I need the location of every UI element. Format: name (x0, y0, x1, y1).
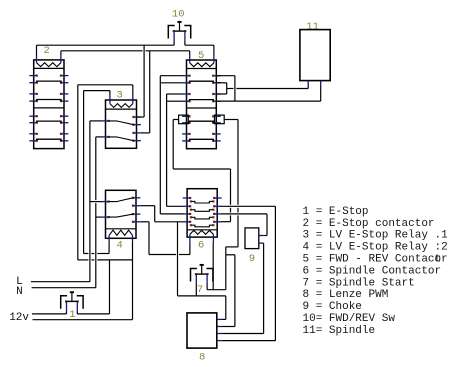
contactor K2 (E-Stop contactor) contact 2 terminal A right pin (60, 93, 68, 95)
wire branch down to K3 NO2 (149, 51, 151, 133)
contactor K2 (E-Stop contactor) contact 3 terminal A left pin (29, 115, 37, 117)
svg-text:1 = E-Stop: 1 = E-Stop (303, 206, 369, 218)
contactor K2 (E-Stop contactor) contact 4 bridge bar (37, 139, 61, 141)
svg-text:11= Spindle: 11= Spindle (303, 325, 376, 337)
contactor K5 (FWD-REV contactor) box (187, 60, 217, 149)
svg-text:7: 7 (197, 284, 203, 296)
wire K2.coil-right to K5.coil-left (horizontal, hops over net A drop) (61, 50, 143, 52)
wire choke pin2 down to PWM pin3 (262, 242, 264, 244)
svg-text:N: N (16, 286, 23, 298)
wire S7 right pin to net R (207, 289, 226, 291)
relay K4 contact 2 arm (109, 214, 134, 217)
pushbutton S7 (Spindle Start) left pin (195, 275, 197, 285)
relay K3 coil pins (109, 95, 111, 104)
contactor K5 (FWD-REV contactor) contact 2 terminal A left pin (182, 93, 190, 95)
relay K3 coil (110, 104, 133, 108)
contactor K2 (E-Stop contactor) contact 2 terminal B left pin (29, 100, 37, 102)
net Q vertical (x=83) (83, 91, 85, 254)
contactor K2 (E-Stop contactor) contact 4 terminal A right pin (60, 133, 68, 135)
contactor K5 (FWD-REV contactor) section divider (187, 107, 217, 109)
vertical x=266.5 to choke pin1 (266, 214, 268, 236)
contactor K2 (E-Stop contactor) contact 1 terminal B right pin (60, 82, 68, 84)
contactor K6 coil divider (187, 229, 217, 231)
wire L feeder (31, 281, 90, 283)
contactor K5 (FWD-REV contactor) contact 4 terminal A left pin (182, 133, 190, 135)
relay K3 contact 1 NO pin (133, 116, 141, 118)
wire K4 NO2 lead (140, 221, 149, 223)
contactor K2 (E-Stop contactor) contact 1 terminal A left pin (29, 75, 37, 77)
switch S10 (FWD/REV) contact bar (173, 30, 175, 32)
wire K4 common1 tap (90, 201, 102, 203)
vertical x=154.2 (154, 206, 156, 222)
contactor K6 coil (190, 230, 214, 234)
wire drop to K2 coil left pin (36, 45, 38, 55)
svg-text:1: 1 (69, 309, 75, 321)
net P vertical (x=77) (77, 85, 79, 260)
U8 pin 3 (217, 333, 222, 335)
wire K4 NO1 to x=154.2 (140, 205, 154, 207)
L9 pin 2 (259, 242, 264, 244)
contactor K2 (E-Stop contactor) coil pins (36, 55, 38, 63)
contactor K6 pole 3 left pin (183, 213, 191, 215)
contactor K2 (E-Stop contactor) contact 2 terminal A left pin (29, 93, 37, 95)
L9 pin 1 (259, 235, 264, 237)
K5 contact1 terminal A right lead (216, 75, 235, 77)
pushbutton S7 (Spindle Start) plunger (200, 264, 204, 266)
contactor K2 (E-Stop contactor) contact 1 terminal A right pin (60, 75, 68, 77)
relay K4 contact 1 NO pin (132, 205, 140, 207)
pushbutton S7 (Spindle Start) bracket (191, 269, 197, 282)
svg-text:6 = Spindle Contactor: 6 = Spindle Contactor (303, 265, 442, 277)
net S horizontal to PWM pin1 drop (178, 295, 226, 297)
pushbutton S1 (E-Stop) right pin (76, 302, 78, 312)
contactor K2 (E-Stop contactor) contact 3 terminal B right pin (60, 122, 68, 124)
svg-text:6: 6 (198, 239, 204, 251)
vertical x=148.5 (148, 222, 150, 255)
relay K3 contact 2 NC pin (133, 140, 141, 142)
wire K2.coil-right riser (60, 51, 62, 55)
relay K4 coil (109, 230, 132, 235)
wire N feeder (32, 287, 96, 289)
net R branch to PWM pin2 (226, 254, 235, 256)
U8 pin 4 (217, 340, 222, 342)
vertical x=274.9 to PWM pin4 (274, 206, 276, 340)
choke L9 box (245, 228, 259, 249)
relay K3 contact 1 arm (109, 121, 134, 125)
contactor K6 pole 2 right pin (213, 205, 221, 207)
contactor K2 (E-Stop contactor) contact 2 terminal B right pin (60, 100, 68, 102)
wire K4 coil-left drop to net Q (108, 242, 110, 254)
contactor K2 (E-Stop contactor) contact 4 terminal B right pin (60, 140, 68, 142)
wire drop to K5 coil left pin (189, 51, 191, 55)
Lenze PWM U8 box (187, 313, 217, 348)
wire PWM pin4 lead (221, 340, 275, 342)
K5 contact1/4 loop vertical (234, 76, 236, 101)
wire across y=168.5 (173, 168, 230, 170)
wire K5 right terminal box lead (224, 119, 238, 121)
wire K6 coil-right drop (212, 243, 214, 290)
net P horizontal y=259 (hops over L and N risers) (78, 259, 89, 261)
svg-text:4: 4 (117, 239, 123, 251)
relay K3 contact 1 common pin (101, 120, 109, 122)
U8 pin 2 (217, 326, 222, 328)
wire S10.right to K5.coil-right (185, 44, 214, 46)
svg-text:2: 2 (44, 45, 50, 57)
wire S7 right pin drop (206, 285, 208, 290)
pushbutton S1 (E-Stop) contact bar (65, 300, 67, 302)
contactor K5 (FWD-REV contactor) contact 4 terminal B left pin (182, 140, 190, 142)
svg-text:t: t (435, 254, 442, 266)
contactor K6 pole 4 bridge bar (190, 224, 192, 226)
svg-text:2 = E-Stop contactor: 2 = E-Stop contactor (303, 218, 435, 230)
contactor K2 (E-Stop contactor) coil (37, 63, 61, 67)
contactor K2 (E-Stop contactor) section divider (34, 107, 64, 109)
pushbutton S1 (E-Stop) plunger (70, 291, 74, 293)
relay K3 contact 2 common pin (101, 136, 109, 138)
wire K6 pole2 right to PWM pin4 (222, 205, 276, 207)
wire E-stop right riser to net P (109, 260, 111, 314)
wire drop to K5 coil right pin (213, 45, 215, 55)
svg-text:8 = Lenze PWM: 8 = Lenze PWM (303, 289, 389, 301)
svg-text:3: 3 (117, 89, 123, 101)
contactor K2 (E-Stop contactor) contact 2 bridge bar (37, 100, 61, 102)
contactor K6 pole 3 bridge bar (190, 216, 192, 218)
wire 12v second feeder (33, 319, 133, 321)
wire K3.coil-right pin drop (132, 85, 134, 95)
contactor K5 (FWD-REV contactor) contact 3 terminal A left pin (182, 115, 190, 117)
M11 pin left (307, 81, 309, 86)
svg-text:5 = FWD - REV Contacor: 5 = FWD - REV Contacor (303, 254, 448, 266)
K5 contact1 terminal A lead (160, 75, 182, 77)
contactor K2 (E-Stop contactor) contact 3 terminal A right pin (60, 115, 68, 117)
relay K4 coil divider (106, 228, 137, 230)
contactor K5 (FWD-REV contactor) contact 4 terminal A right pin (212, 133, 220, 135)
relay K4 coil pins (108, 235, 110, 242)
contactor K6 pole 4 right pin (213, 221, 221, 223)
wire PWM pin2 lead (221, 326, 235, 328)
contactor K6 pole 4 left pin (183, 221, 191, 223)
wire into K6 pole4 right (222, 221, 231, 223)
net R branch vertical to PWM pin2 (234, 255, 236, 327)
net R vertical x=237.5 (hops K6 pole2/3 wires) (237, 120, 239, 205)
wire to K6 pole2 left (167, 205, 183, 207)
contactor K2 (E-Stop contactor) contact 3 terminal B left pin (29, 122, 37, 124)
wire K3.coil-left horizontal (84, 90, 110, 92)
relay K3 contact 2 NO pin (133, 132, 141, 134)
contactor K5 (FWD-REV contactor) coil (190, 63, 214, 67)
pushbutton S1 left pin lead (66, 312, 68, 314)
net R vertical x=225.6 (225, 247, 227, 290)
svg-text:9 = Choke: 9 = Choke (303, 301, 362, 313)
wire S10.left to K2.coil-left (horizontal) (37, 44, 175, 46)
wire choke pin1 lead (263, 235, 267, 237)
contactor K6 box (187, 189, 217, 237)
K5 contact2 terminal B right lead to M11 right pin (216, 100, 320, 102)
net R jog (226, 246, 238, 248)
relay K4 contact 1 common pin (101, 201, 109, 203)
contactor K2 (E-Stop contactor) contact 4 terminal B left pin (29, 140, 37, 142)
K5 contact1 terminal B lead (160, 82, 182, 84)
contactor K5 (FWD-REV contactor) contact 4 bridge bar (190, 139, 214, 141)
contactor K6 pole 1 right pin (213, 197, 221, 199)
relay K4 box (106, 190, 137, 238)
wire tap down to K3 NO1 (143, 45, 145, 117)
wire into K3 NO1 pin (137, 116, 145, 118)
wire K6 pole3 right to choke (222, 213, 268, 215)
svg-text:7 = Spindle Start: 7 = Spindle Start (303, 277, 415, 289)
wire into K3 common1 (90, 120, 102, 122)
wire K5 left terminal box lead (173, 119, 178, 121)
wire into K3 NO2 pin (141, 132, 150, 134)
M11 pin right (320, 81, 322, 86)
contactor K5 (FWD-REV contactor) contact 2 terminal A right pin (212, 93, 220, 95)
contactor K5 (FWD-REV contactor) contact 1 bridge bar (190, 81, 214, 83)
contactor K5 (FWD-REV contactor) contact 1 terminal A left pin (182, 75, 190, 77)
U8 pin 1 (217, 318, 222, 320)
K5 contact2 terminal B lead (167, 100, 183, 102)
net Q horizontal y=253 (hops over L and N risers) (84, 253, 89, 255)
relay K4 contact 2 NO pin (132, 221, 140, 223)
K5 contact1 terminal B right lead (216, 82, 226, 84)
relay K4 contact 2 NC pin (132, 213, 140, 215)
wire down x=230 to K6 pole4 right (hops K6 pole2/3 wires) (230, 169, 232, 205)
relay K3 contact 2 arm (109, 137, 134, 141)
pushbutton S1 (E-Stop) left pin (66, 302, 68, 312)
contactor K5 left terminal box (179, 115, 189, 124)
contactor K6 pole 1 left pin (183, 197, 191, 199)
relay K4 contact 1 arm (109, 198, 134, 202)
svg-text:10= FWD/REV Sw: 10= FWD/REV Sw (303, 313, 396, 325)
contactor K5 (FWD-REV contactor) contact 3 terminal B left pin (182, 122, 190, 124)
contactor K5 (FWD-REV contactor) coil pins (189, 55, 191, 63)
contactor K5 (FWD-REV contactor) contact 1 terminal B left pin (182, 82, 190, 84)
wire PWM pin1 lead (221, 318, 226, 320)
K5 contact2 jumper vertical (166, 94, 168, 206)
switch S10 (FWD/REV) bracket (168, 26, 174, 39)
wire S7 left pin drop to net S (195, 285, 197, 296)
contactor K5 (FWD-REV contactor) contact 2 terminal B left pin (182, 100, 190, 102)
contactor K5 (FWD-REV contactor) contact 3 terminal B right pin (212, 122, 220, 124)
M11 right pin drop (320, 85, 322, 101)
wire to M11 left pin (hops loop vertical) (227, 88, 234, 90)
svg-text:5: 5 (198, 50, 204, 62)
K5 contact1 jumper vertical (159, 76, 161, 214)
wire K6 coil-left drop (189, 243, 191, 255)
contactor K6 pole 3 right pin (213, 213, 221, 215)
contactor K5 (FWD-REV contactor) contact 1 terminal A right pin (212, 75, 220, 77)
wire E-stop right pin to riser (77, 313, 109, 315)
wire K4 coil-right drop to net P and on to 12v line (132, 242, 134, 320)
contactor K5 (FWD-REV contactor) contact 1 terminal B right pin (212, 82, 220, 84)
pushbutton S1 right pin lead (76, 312, 78, 314)
net S riser x=177 (from K6 pole4 wire down to S7 net) (177, 222, 179, 296)
wire K4 common2 tap (96, 216, 102, 218)
contactor K5 (FWD-REV contactor) contact 3 terminal A right pin (212, 115, 220, 117)
contactor K2 (E-Stop contactor) box (34, 60, 64, 149)
S10 left pin lead (173, 42, 175, 45)
pushbutton S1 (E-Stop) bracket (61, 296, 67, 309)
svg-text:9: 9 (249, 253, 255, 265)
wire y=254 to K6 coil left (hops net S riser) (149, 254, 176, 256)
vertical x=225.6 to PWM pin1 (225, 296, 227, 320)
contactor K5 (FWD-REV contactor) contact 4 terminal B right pin (212, 140, 220, 142)
K5 contact2 loop vertical (226, 83, 228, 94)
K5 contact2 terminal A lead (167, 93, 183, 95)
contactor K2 (E-Stop contactor) contact 4 terminal A left pin (29, 133, 37, 135)
contactor K2 (E-Stop contactor) contact 1 bridge bar (37, 81, 61, 83)
pushbutton S7 (Spindle Start) contact bar (195, 273, 197, 275)
contactor K6 pole 2 left pin (183, 205, 191, 207)
contactor K5 (FWD-REV contactor) contact 3 bridge bar (190, 121, 214, 123)
wire PWM pin3 lead (221, 333, 263, 335)
wire 12v to E-stop left pin (32, 313, 67, 315)
wire into K3 common2 (96, 136, 102, 138)
contactor K6 pole 2 bridge bar (190, 209, 192, 211)
svg-text:10: 10 (172, 8, 185, 20)
relay K3 box (106, 100, 137, 148)
svg-text:3 = LV E-Stop Relay .1: 3 = LV E-Stop Relay .1 (303, 230, 449, 242)
net L riser (x=89.4) to K3 common1, tap to K4 common1 (89, 121, 91, 282)
contactor K5 (FWD-REV contactor) contact 2 bridge bar (190, 100, 214, 102)
spindle motor M11 box (300, 30, 330, 81)
switch S10 (FWD/REV) left pin (173, 32, 175, 42)
S10 right pin lead (184, 42, 186, 45)
M11 left pin drop (307, 85, 309, 89)
svg-text:8: 8 (199, 352, 205, 363)
svg-text:12v: 12v (9, 312, 29, 324)
wire K3.coil-right horizontal (78, 84, 133, 86)
net N riser (x=95.3, hops over K4 common1 tap) (95, 137, 97, 200)
switch S10 (FWD/REV) right pin (184, 32, 186, 42)
relay K4 contact 1 NC pin (132, 197, 140, 199)
K5 contact2 terminal A right lead (216, 93, 226, 95)
contactor K2 (E-Stop contactor) contact 1 terminal B left pin (29, 82, 37, 84)
contactor K2 (E-Stop contactor) contact 3 bridge bar (37, 121, 61, 123)
relay K4 contact 2 common pin (101, 216, 109, 218)
wire y=221.3 to K6 pole4 left (155, 221, 183, 223)
switch S10 (FWD/REV) plunger (177, 21, 181, 23)
contactor K5 right terminal box (215, 115, 225, 124)
wire to K6 pole3 left (160, 213, 183, 215)
relay K3 contact 1 NC pin (133, 124, 141, 126)
contactor K6 pole 1 bridge bar (190, 200, 192, 202)
contactor K5 (FWD-REV contactor) contact 2 terminal B right pin (212, 100, 220, 102)
svg-text:11: 11 (306, 21, 319, 33)
pushbutton S7 (Spindle Start) right pin (206, 275, 208, 285)
contactor K6 coil pins (189, 234, 191, 243)
svg-text:4 = LV E-Stop Relay :2: 4 = LV E-Stop Relay :2 (303, 242, 448, 254)
wire K3.coil-left pin drop (109, 91, 111, 96)
wire drop x=172.7 (172, 120, 174, 170)
